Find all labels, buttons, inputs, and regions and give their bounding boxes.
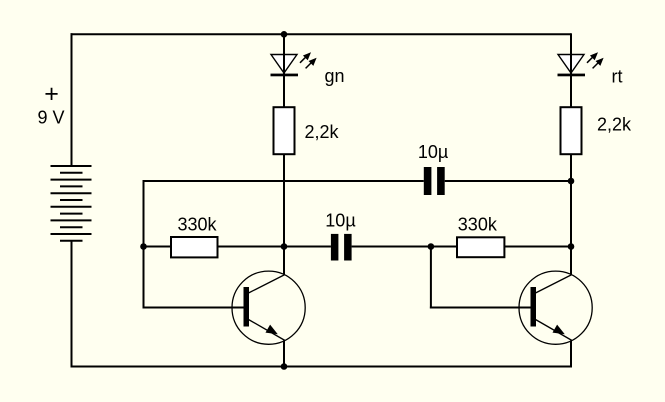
svg-text:2,2k: 2,2k [597,114,632,134]
resistor R2 2,2k [561,107,582,154]
svg-text:330k: 330k [178,215,218,235]
wire: Q2 base vertical (x=430.9) [430,247,432,309]
svg-text:gn: gn [325,66,345,86]
svg-text:10µ: 10µ [325,211,355,231]
wire: R3 to Q1 collector node [218,246,331,248]
svg-text:330k: 330k [458,215,498,235]
transistor Q2 collector stroke [536,275,573,294]
wire: Q2 emitter to bottom rail [570,341,572,368]
resistor R1 2,2k [274,107,295,154]
LED D2 cathode bar [558,74,586,77]
node: Q2 collector / top wire junction [568,178,575,185]
wire: cross-coupling top wire (Q1 base to C2) [143,180,424,182]
wire: top supply rail [71,33,572,35]
wire: Q1 base vertical (x=143.5) [143,180,145,309]
transistor Q2 body circle [519,271,592,344]
wire: Q1 emitter to bottom rail [283,341,285,367]
wire: left vertical from battery to bottom rail [71,241,73,368]
node: Q1 emitter / bottom rail junction [281,363,288,370]
capacitor C2 10µ plate 1 [424,167,432,195]
wire: R2 bottom down to transistor Q2 collector [570,154,572,274]
wire: left branch, top rail to resistor R1 (through LED) [283,34,285,107]
capacitor C2 10µ plate 2 [437,167,445,195]
LED D1 light arrow 2 [306,58,317,69]
wire: Q1 base horizontal [143,307,245,309]
LED D1 (green) triangle [271,55,297,74]
transistor Q2 emitter arrowhead [553,325,565,335]
svg-text:9 V: 9 V [38,108,65,128]
wire: Q2 base horizontal [430,307,531,309]
LED D2 light arrow 2 [593,58,604,69]
wire: C1 to Q2 base node [352,246,457,248]
wire: R1 bottom down to transistor Q1 collector [283,154,285,274]
transistor Q2 base bar [531,287,537,327]
node: top rail / D1 junction [281,31,288,38]
capacitor C1 10µ plate 2 [344,234,352,261]
svg-text:10µ: 10µ [418,142,448,162]
LED D2 (red) triangle [558,55,584,74]
wire: base node to R3 [144,246,172,248]
LED D1 light arrow 1 [300,52,311,63]
transistor Q1 emitter stroke [249,320,286,341]
battery B1 (9V) [51,166,92,241]
transistor Q2 emitter stroke [536,320,573,341]
resistor R4 330k [457,237,504,257]
transistor Q1 emitter arrowhead [266,325,278,335]
transistor Q1 collector stroke [249,275,286,294]
node: Q2 base junction [428,243,435,250]
capacitor C1 10µ plate 1 [331,234,339,261]
LED D2 light arrow 1 [587,52,598,63]
node: Q1 collector junction [281,243,288,250]
transistor Q1 base bar [244,287,250,327]
node: Q2 collector junction [568,243,575,250]
wire: bottom ground rail [71,366,572,368]
resistor R3 330k [171,237,218,257]
wire: C2 to Q2 collector [445,180,571,182]
svg-text:2,2k: 2,2k [305,122,340,142]
wire: R4 to Q2 collector node [504,246,571,248]
wire: right branch, top rail corner to resistor R2 (through LED) [570,33,572,107]
node: Q1 base junction [140,243,147,250]
svg-text:+: + [44,80,59,108]
transistor Q1 body circle [232,271,305,344]
wire: left vertical from top rail to battery [71,33,73,166]
svg-text:rt: rt [612,67,623,87]
LED D1 cathode bar [271,74,299,77]
